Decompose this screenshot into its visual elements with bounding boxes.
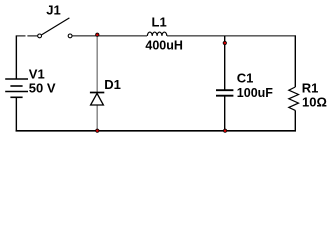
svg-text:D1: D1 <box>104 77 121 92</box>
svg-text:J1: J1 <box>46 3 60 18</box>
svg-text:400uH: 400uH <box>145 39 183 53</box>
svg-text:50 V: 50 V <box>29 80 56 95</box>
svg-text:10Ω: 10Ω <box>302 95 327 110</box>
svg-text:R1: R1 <box>302 80 319 95</box>
svg-text:L1: L1 <box>152 15 167 30</box>
svg-text:C1: C1 <box>237 71 254 86</box>
svg-text:100uF: 100uF <box>237 86 273 100</box>
